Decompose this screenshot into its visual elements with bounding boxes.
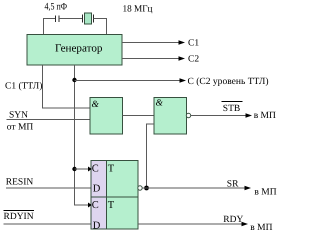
- wire: right vertical of crystal loop: [106, 18, 108, 35]
- svg-text:RDY: RDY: [223, 215, 243, 225]
- svg-text:C: C: [92, 200, 99, 211]
- svg-text:от МП: от МП: [7, 123, 34, 133]
- svg-text:18 МГц: 18 МГц: [123, 5, 153, 15]
- generator box U1: [27, 35, 122, 66]
- wire: RDYIN to FF2 D input: [4, 223, 92, 225]
- inverter bubble on AND2 output: [186, 113, 190, 117]
- svg-text:SR: SR: [227, 180, 239, 190]
- svg-text:в МП: в МП: [254, 111, 276, 121]
- svg-text:Генератор: Генератор: [55, 42, 103, 54]
- svg-text:&: &: [156, 99, 164, 109]
- inverter bubble on FF1 output: [138, 186, 142, 190]
- capacitor C1 4,5 пФ: [56, 16, 59, 23]
- arrow RDY: [242, 222, 249, 227]
- wire: AND1 output to AND2 input: [123, 115, 155, 117]
- flip-flop D2.1 T section: [107, 161, 139, 198]
- flip-flop D2.2 control section: [91, 197, 107, 231]
- svg-text:RDYIN: RDYIN: [4, 212, 34, 222]
- wire: feedback horizontal into AND2: [146, 123, 154, 125]
- wire: RDY output: [138, 223, 243, 225]
- node: junction of C output: [72, 78, 76, 82]
- wire: SR output: [142, 187, 246, 189]
- wire: STB output: [191, 115, 248, 117]
- svg-text:RESIN: RESIN: [6, 178, 34, 188]
- wire: crystal to right corner: [94, 18, 108, 20]
- wire: C1 TTL vertical from generator bottom: [42, 65, 44, 109]
- arrow STB: [246, 113, 253, 118]
- svg-text:в МП: в МП: [250, 223, 272, 233]
- wire: clock turn to FF2 C input: [74, 204, 91, 206]
- svg-text:T: T: [108, 163, 115, 174]
- svg-text:D: D: [93, 220, 101, 231]
- arrow C1: [179, 40, 186, 45]
- wire: feedback from SR node up to AND2 second input: [146, 124, 148, 189]
- svg-text:D: D: [93, 184, 101, 195]
- wire: vertical clock line from generator bottom: [74, 65, 76, 206]
- svg-text:T: T: [108, 200, 115, 211]
- wire: clock to FF1 C input: [75, 168, 92, 170]
- flip-flop D2.2 T section: [107, 197, 139, 229]
- svg-text:C1: C1: [188, 39, 199, 49]
- svg-text:C: C: [92, 163, 99, 174]
- wire: capacitor to crystal: [59, 18, 82, 20]
- wire: C1 TTL horizontal to AND1: [43, 107, 91, 109]
- svg-text:C2: C2: [188, 55, 199, 65]
- svg-text:С1 (ТТЛ): С1 (ТТЛ): [5, 82, 42, 92]
- AND gate D1.2: [154, 98, 187, 135]
- wire: C2 output: [122, 58, 180, 60]
- AND gate D1.1: [90, 98, 123, 135]
- wire: horizontal to capacitor: [43, 18, 55, 20]
- label RDYIN with overline: [4, 211, 35, 223]
- arrow SR: [245, 186, 252, 191]
- crystal ZQ1 18 МГц: [83, 13, 94, 24]
- wire: left vertical of crystal loop: [43, 18, 45, 35]
- svg-text:&: &: [92, 100, 100, 110]
- svg-text:4,5 пФ: 4,5 пФ: [45, 2, 68, 13]
- wire: C1 output: [122, 42, 180, 44]
- arrow C: [180, 78, 187, 83]
- label STB with overline: [222, 102, 243, 114]
- node: clock junction to FF1 C: [72, 167, 76, 171]
- node: SR junction: [144, 186, 149, 191]
- wire: C output: [75, 80, 182, 82]
- svg-text:STB: STB: [223, 104, 240, 114]
- wire: RESIN to FF1 D input: [6, 187, 91, 189]
- dynamic input marker FF1 C: [88, 167, 92, 172]
- svg-text:в МП: в МП: [254, 187, 276, 197]
- arrow C2: [179, 56, 186, 61]
- flip-flop D2.1 control section: [91, 161, 107, 198]
- wire: SYN input: [7, 119, 91, 121]
- svg-text:С (С2 уровень ТТЛ): С (С2 уровень ТТЛ): [188, 77, 269, 87]
- dynamic input marker FF2 C: [88, 203, 92, 208]
